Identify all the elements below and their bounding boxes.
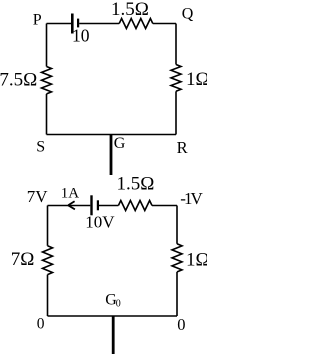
wire P corner down to resistor 7.5ohm (46, 24, 48, 67)
resistor 7.5ohm (top circuit, left side) (42, 67, 52, 94)
wire bottom side S to R (47, 134, 177, 136)
svg-text:0: 0 (177, 315, 185, 334)
ground stub G (top circuit) (110, 135, 113, 176)
wire top circuit: P corner to battery (47, 23, 72, 25)
svg-text:1.5Ω: 1.5Ω (117, 173, 155, 194)
wire -1V corner down to resistor 1ohm (176, 206, 178, 244)
node 0 (bottom right) (177, 315, 185, 334)
wire resistor 1ohm to bottom right corner (176, 272, 178, 316)
wire 7V corner down to resistor 7ohm (47, 206, 49, 246)
value label 10 (72, 26, 90, 46)
current arrow 1A (pointing left) (68, 201, 75, 209)
wire battery to resistor 1.5ohm (bottom circuit) (99, 205, 118, 207)
wire resistor 1ohm to R corner (175, 91, 177, 134)
value label 10V (85, 213, 115, 232)
svg-text:0: 0 (116, 298, 121, 309)
svg-text:-1V: -1V (180, 189, 203, 208)
value label 7.5ohm (0, 69, 37, 90)
svg-text:7V: 7V (27, 187, 49, 206)
resistor 1.5ohm (bottom circuit, top wire) (118, 201, 152, 211)
value label 1ohm (bottom circuit) (186, 249, 210, 270)
svg-text:1Ω: 1Ω (186, 249, 207, 270)
value label 7ohm (11, 249, 35, 270)
svg-text:7Ω: 7Ω (11, 249, 35, 270)
svg-text:1.5Ω: 1.5Ω (111, 0, 149, 20)
wire Q corner down to resistor 1ohm (175, 24, 177, 65)
wire resistor to Q corner (153, 23, 176, 25)
svg-text:10: 10 (72, 26, 90, 46)
value label 1.5ohm (top) (111, 0, 149, 20)
node P (33, 11, 42, 28)
resistor 7ohm (bottom circuit, left side) (43, 246, 53, 275)
battery 10 (top circuit) (71, 14, 79, 34)
node 0 (bottom left) (37, 315, 45, 332)
ground stub G0 (bottom circuit) (112, 316, 115, 354)
svg-text:1Ω: 1Ω (186, 69, 207, 90)
node R (177, 138, 188, 157)
svg-text:7.5Ω: 7.5Ω (0, 69, 37, 90)
svg-text:Q: Q (182, 6, 194, 23)
svg-text:G: G (114, 135, 126, 152)
node G0 (105, 292, 121, 310)
wire bottom side (bottom circuit) (48, 315, 178, 317)
battery 10V (bottom circuit) (90, 195, 99, 215)
resistor 1ohm (bottom circuit, right side) (172, 244, 182, 272)
current label 1A (61, 186, 80, 202)
svg-text:10V: 10V (85, 213, 115, 232)
wire battery to resistor 1.5ohm (79, 23, 119, 25)
value label 1ohm (top circuit) (186, 69, 210, 90)
wire resistor to -1V corner (152, 205, 177, 207)
svg-text:0: 0 (37, 315, 45, 332)
resistor 1ohm (top circuit, right side) (171, 65, 181, 92)
node G (114, 135, 126, 152)
node S (36, 139, 45, 156)
value label 1.5ohm (bottom) (117, 173, 155, 194)
svg-text:S: S (36, 139, 45, 156)
wire bottom circuit: 7V corner to battery (48, 205, 91, 207)
node -1V (180, 189, 203, 208)
node Q (182, 6, 194, 23)
svg-text:P: P (33, 11, 42, 28)
node 7V (27, 187, 49, 206)
wire resistor 7.5ohm to S corner (46, 94, 48, 135)
svg-text:R: R (177, 138, 188, 157)
svg-text:1A: 1A (61, 186, 80, 202)
resistor 1.5ohm (top circuit, top wire) (119, 19, 153, 29)
wire resistor 7ohm to bottom left corner (47, 275, 49, 316)
